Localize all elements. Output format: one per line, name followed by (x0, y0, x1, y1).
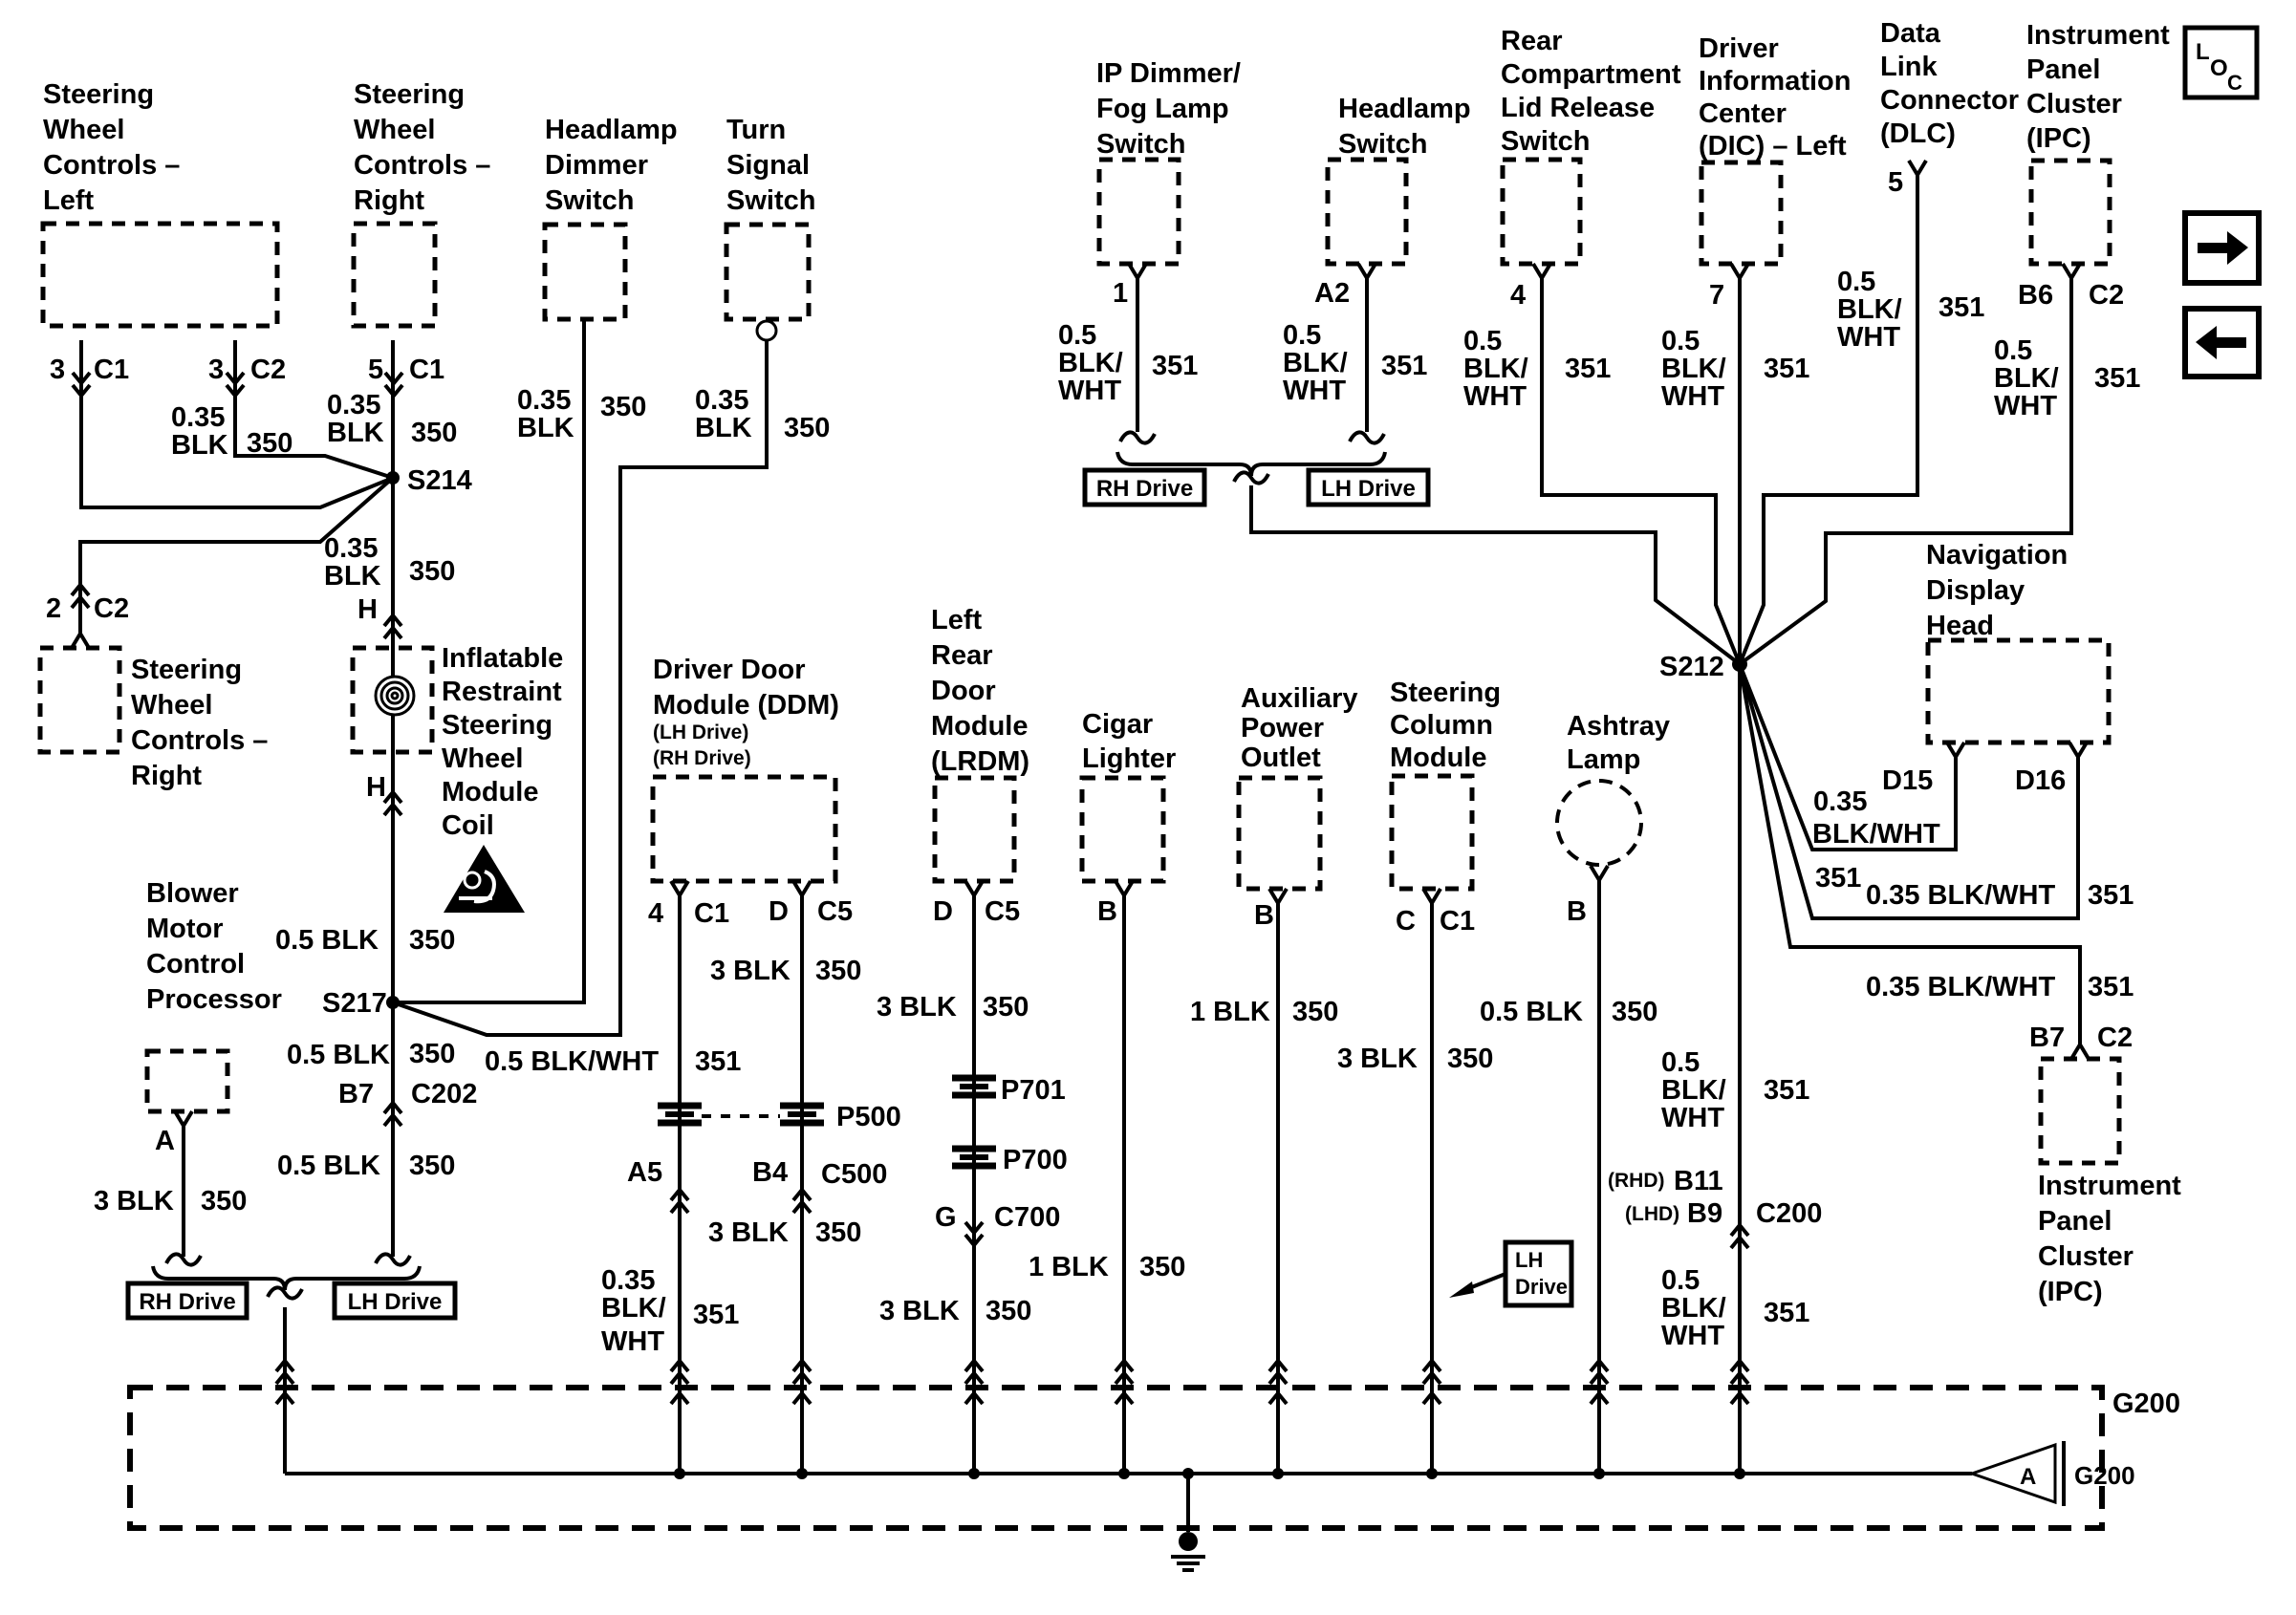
svg-text:Instrument: Instrument (2038, 1171, 2181, 1201)
svg-text:A2: A2 (1314, 278, 1350, 309)
svg-text:B: B (1254, 900, 1274, 931)
svg-text:C1: C1 (694, 898, 729, 929)
svg-text:0.35 BLK/WHT: 0.35 BLK/WHT (1866, 972, 2055, 1002)
svg-text:BLK: BLK (517, 413, 574, 443)
svg-text:S217: S217 (322, 988, 387, 1019)
svg-text:5: 5 (1888, 167, 1903, 198)
svg-text:S212: S212 (1659, 652, 1724, 682)
svg-text:350: 350 (409, 1151, 455, 1181)
svg-text:C2: C2 (2089, 280, 2124, 311)
svg-text:350: 350 (409, 556, 455, 587)
svg-text:0.5: 0.5 (1058, 320, 1096, 351)
svg-text:Coil: Coil (442, 810, 494, 841)
svg-text:Controls –: Controls – (354, 150, 490, 181)
svg-text:0.5 BLK/WHT: 0.5 BLK/WHT (485, 1046, 659, 1077)
svg-text:C: C (1396, 906, 1416, 937)
svg-text:350: 350 (1447, 1044, 1493, 1074)
svg-text:A: A (2020, 1464, 2036, 1490)
svg-text:0.5: 0.5 (1994, 335, 2032, 366)
svg-text:BLK: BLK (324, 561, 381, 592)
svg-text:Information: Information (1699, 66, 1852, 97)
svg-text:Steering: Steering (131, 655, 242, 685)
svg-text:3 BLK: 3 BLK (1337, 1044, 1418, 1074)
svg-text:351: 351 (2094, 363, 2140, 394)
svg-text:Wheel: Wheel (43, 115, 124, 145)
svg-text:WHT: WHT (1463, 381, 1527, 412)
svg-text:0.5 BLK: 0.5 BLK (1480, 997, 1583, 1027)
svg-text:3: 3 (208, 355, 224, 385)
svg-text:C700: C700 (994, 1202, 1060, 1233)
svg-text:3 BLK: 3 BLK (710, 956, 791, 986)
svg-text:(LHD): (LHD) (1625, 1203, 1679, 1225)
svg-text:0.35: 0.35 (517, 385, 571, 416)
svg-text:Compartment: Compartment (1501, 59, 1681, 90)
svg-text:0.5: 0.5 (1283, 320, 1321, 351)
svg-text:0.35: 0.35 (1813, 786, 1867, 817)
svg-text:1 BLK: 1 BLK (1190, 997, 1270, 1027)
svg-text:C2: C2 (250, 355, 286, 385)
svg-text:5: 5 (368, 355, 383, 385)
svg-text:D15: D15 (1882, 765, 1933, 796)
svg-text:351: 351 (1381, 351, 1427, 381)
svg-text:G200: G200 (2112, 1389, 2180, 1419)
svg-text:Steering: Steering (1390, 678, 1501, 708)
svg-text:0.35: 0.35 (601, 1265, 655, 1296)
svg-text:1: 1 (1113, 278, 1128, 309)
svg-text:3 BLK: 3 BLK (879, 1296, 960, 1326)
svg-text:351: 351 (693, 1300, 739, 1330)
svg-text:BLK/: BLK/ (1661, 1075, 1726, 1106)
svg-text:Module: Module (1390, 743, 1487, 773)
svg-text:C5: C5 (817, 896, 853, 927)
svg-text:(RH Drive): (RH Drive) (653, 747, 751, 769)
svg-text:Left: Left (931, 605, 983, 635)
svg-text:WHT: WHT (1661, 1103, 1724, 1133)
svg-text:RH Drive: RH Drive (1096, 476, 1193, 502)
svg-text:Steering: Steering (354, 79, 465, 110)
svg-text:A5: A5 (627, 1157, 662, 1188)
svg-text:350: 350 (815, 956, 861, 986)
svg-text:Panel: Panel (2038, 1206, 2112, 1237)
svg-text:Processor: Processor (146, 984, 282, 1015)
svg-text:Inflatable: Inflatable (442, 643, 563, 674)
svg-text:1 BLK: 1 BLK (1029, 1252, 1109, 1282)
svg-text:BLK/: BLK/ (1661, 1293, 1726, 1324)
svg-text:WHT: WHT (1058, 376, 1121, 406)
svg-text:351: 351 (2088, 972, 2134, 1002)
svg-text:Auxiliary: Auxiliary (1241, 683, 1358, 714)
svg-text:Controls –: Controls – (43, 150, 180, 181)
svg-text:Module (DDM): Module (DDM) (653, 690, 839, 721)
svg-text:P500: P500 (836, 1102, 901, 1132)
svg-text:BLK/: BLK/ (1058, 348, 1123, 378)
svg-text:H: H (366, 772, 386, 803)
svg-text:BLK/: BLK/ (1994, 363, 2059, 394)
svg-text:Door: Door (931, 676, 996, 706)
svg-text:C5: C5 (985, 896, 1020, 927)
svg-text:Lighter: Lighter (1082, 743, 1176, 774)
svg-text:0.5: 0.5 (1661, 1047, 1700, 1078)
svg-text:0.5: 0.5 (1661, 1265, 1700, 1296)
svg-text:Driver Door: Driver Door (653, 655, 806, 685)
svg-text:Cigar: Cigar (1082, 709, 1153, 740)
svg-text:B4: B4 (752, 1157, 788, 1188)
svg-text:H: H (357, 594, 378, 625)
svg-text:BLK/: BLK/ (1661, 354, 1726, 384)
svg-text:Right: Right (131, 761, 202, 791)
svg-text:P701: P701 (1001, 1075, 1066, 1106)
svg-text:0.35: 0.35 (324, 533, 378, 564)
svg-text:3 BLK: 3 BLK (94, 1186, 174, 1217)
svg-text:4: 4 (648, 898, 663, 929)
svg-text:0.5: 0.5 (1837, 267, 1875, 297)
svg-text:Outlet: Outlet (1241, 743, 1321, 773)
svg-text:LH Drive: LH Drive (348, 1289, 443, 1315)
svg-text:BLK/: BLK/ (1283, 348, 1348, 378)
svg-text:Display: Display (1926, 575, 2025, 606)
svg-text:G: G (935, 1202, 957, 1233)
svg-text:Connector: Connector (1880, 85, 2019, 116)
svg-text:351: 351 (1764, 1075, 1809, 1106)
svg-text:351: 351 (2088, 880, 2134, 911)
svg-text:(DLC): (DLC) (1880, 118, 1956, 149)
svg-text:2: 2 (46, 593, 61, 624)
svg-text:(IPC): (IPC) (2038, 1277, 2103, 1307)
svg-text:0.35: 0.35 (171, 402, 225, 433)
svg-text:D: D (933, 896, 953, 927)
svg-text:WHT: WHT (1283, 376, 1346, 406)
svg-text:(DIC) – Left: (DIC) – Left (1699, 131, 1847, 161)
svg-text:C1: C1 (409, 355, 444, 385)
svg-text:C1: C1 (1440, 906, 1475, 937)
svg-text:Fog Lamp: Fog Lamp (1096, 94, 1229, 124)
svg-text:B6: B6 (2018, 280, 2053, 311)
svg-text:Instrument: Instrument (2026, 20, 2170, 51)
svg-text:Switch: Switch (1338, 129, 1427, 160)
svg-text:G200: G200 (2074, 1461, 2135, 1490)
svg-text:Turn: Turn (726, 115, 786, 145)
svg-text:Rear: Rear (931, 640, 993, 671)
svg-text:B9: B9 (1687, 1198, 1722, 1229)
svg-text:BLK/: BLK/ (601, 1293, 666, 1324)
svg-text:351: 351 (695, 1046, 741, 1077)
svg-text:0.5 BLK: 0.5 BLK (287, 1040, 390, 1070)
svg-text:L: L (2196, 39, 2210, 65)
svg-text:(LRDM): (LRDM) (931, 746, 1029, 777)
svg-text:Motor: Motor (146, 914, 224, 944)
svg-text:350: 350 (411, 418, 457, 448)
svg-text:Driver: Driver (1699, 33, 1779, 64)
svg-text:Rear: Rear (1501, 26, 1563, 56)
svg-text:350: 350 (409, 925, 455, 956)
svg-text:Navigation: Navigation (1926, 540, 2068, 571)
svg-text:3: 3 (50, 355, 65, 385)
svg-text:Lamp: Lamp (1567, 744, 1640, 775)
svg-text:B: B (1567, 896, 1587, 927)
svg-text:Center: Center (1699, 98, 1787, 129)
svg-text:Dimmer: Dimmer (545, 150, 648, 181)
svg-text:D16: D16 (2015, 765, 2066, 796)
svg-text:0.35: 0.35 (327, 390, 380, 420)
svg-text:Module: Module (442, 777, 539, 807)
svg-text:C: C (2227, 71, 2242, 95)
svg-text:0.35: 0.35 (695, 385, 748, 416)
svg-text:4: 4 (1510, 280, 1526, 311)
svg-text:Right: Right (354, 185, 424, 216)
svg-text:Wheel: Wheel (442, 743, 523, 774)
svg-text:A: A (155, 1126, 175, 1156)
svg-text:Column: Column (1390, 710, 1493, 741)
svg-text:350: 350 (815, 1217, 861, 1248)
svg-text:Headlamp: Headlamp (1338, 94, 1471, 124)
svg-text:Steering: Steering (442, 710, 552, 741)
svg-text:7: 7 (1709, 280, 1724, 311)
svg-text:Panel: Panel (2026, 54, 2100, 85)
svg-text:Link: Link (1880, 52, 1938, 82)
svg-text:C2: C2 (94, 593, 129, 624)
svg-text:Steering: Steering (43, 79, 154, 110)
svg-text:BLK/: BLK/ (1837, 294, 1902, 325)
svg-text:Wheel: Wheel (131, 690, 212, 721)
svg-text:350: 350 (600, 392, 646, 422)
svg-text:350: 350 (983, 992, 1029, 1023)
svg-text:Cluster: Cluster (2026, 89, 2122, 119)
svg-text:S214: S214 (407, 465, 472, 496)
svg-text:350: 350 (247, 428, 292, 459)
svg-text:C2: C2 (2097, 1023, 2133, 1053)
svg-text:0.35 BLK/WHT: 0.35 BLK/WHT (1866, 880, 2055, 911)
svg-text:Data: Data (1880, 18, 1941, 49)
svg-text:0.5: 0.5 (1463, 326, 1502, 356)
svg-text:351: 351 (1764, 354, 1809, 384)
svg-text:3 BLK: 3 BLK (877, 992, 957, 1023)
svg-text:WHT: WHT (1661, 381, 1724, 412)
svg-text:350: 350 (1292, 997, 1338, 1027)
svg-text:Cluster: Cluster (2038, 1241, 2134, 1272)
svg-text:(LH Drive): (LH Drive) (653, 721, 748, 743)
svg-text:BLK: BLK (327, 418, 384, 448)
svg-text:Control: Control (146, 949, 245, 980)
svg-text:351: 351 (1152, 351, 1198, 381)
svg-text:351: 351 (1565, 354, 1611, 384)
svg-text:D: D (769, 896, 789, 927)
svg-text:WHT: WHT (1994, 391, 2057, 421)
svg-text:350: 350 (986, 1296, 1031, 1326)
svg-text:O: O (2210, 55, 2228, 81)
svg-text:Ashtray: Ashtray (1567, 711, 1670, 742)
svg-text:Signal: Signal (726, 150, 810, 181)
svg-text:Switch: Switch (726, 185, 815, 216)
svg-text:WHT: WHT (1837, 322, 1900, 353)
svg-text:(IPC): (IPC) (2026, 123, 2091, 154)
svg-text:B: B (1097, 896, 1117, 927)
svg-text:P700: P700 (1003, 1145, 1068, 1175)
svg-text:BLK/: BLK/ (1463, 354, 1528, 384)
svg-text:IP Dimmer/: IP Dimmer/ (1096, 58, 1241, 89)
svg-text:Wheel: Wheel (354, 115, 435, 145)
svg-text:B11: B11 (1674, 1166, 1723, 1196)
svg-text:LH: LH (1515, 1248, 1543, 1272)
svg-text:Controls –: Controls – (131, 725, 268, 756)
svg-text:350: 350 (201, 1186, 247, 1217)
svg-text:Module: Module (931, 711, 1029, 742)
svg-text:LH Drive: LH Drive (1321, 476, 1416, 502)
svg-text:350: 350 (784, 413, 830, 443)
svg-text:B7: B7 (338, 1079, 374, 1109)
svg-text:BLK: BLK (695, 413, 752, 443)
svg-text:WHT: WHT (1661, 1321, 1724, 1351)
svg-text:0.5 BLK: 0.5 BLK (277, 1151, 380, 1181)
svg-text:Drive: Drive (1515, 1275, 1568, 1299)
svg-text:B7: B7 (2029, 1023, 2065, 1053)
svg-text:RH Drive: RH Drive (139, 1289, 235, 1315)
svg-text:Switch: Switch (545, 185, 634, 216)
svg-text:351: 351 (1815, 863, 1861, 894)
svg-text:Restraint: Restraint (442, 677, 562, 707)
svg-text:350: 350 (409, 1039, 455, 1069)
svg-text:Power: Power (1241, 713, 1324, 743)
svg-text:350: 350 (1612, 997, 1657, 1027)
svg-text:BLK: BLK (171, 430, 228, 461)
svg-text:(RHD): (RHD) (1608, 1170, 1664, 1192)
svg-text:WHT: WHT (601, 1326, 664, 1357)
svg-text:Blower: Blower (146, 878, 239, 909)
svg-text:Left: Left (43, 185, 95, 216)
svg-text:Headlamp: Headlamp (545, 115, 678, 145)
svg-text:Lid Release: Lid Release (1501, 93, 1655, 123)
svg-text:Switch: Switch (1096, 129, 1185, 160)
svg-text:0.5: 0.5 (1661, 326, 1700, 356)
svg-text:351: 351 (1939, 292, 1984, 323)
svg-text:351: 351 (1764, 1298, 1809, 1328)
svg-text:C1: C1 (94, 355, 129, 385)
svg-text:BLK/WHT: BLK/WHT (1812, 819, 1940, 850)
svg-text:Switch: Switch (1501, 126, 1590, 157)
svg-text:C200: C200 (1756, 1198, 1822, 1229)
svg-text:3 BLK: 3 BLK (708, 1217, 789, 1248)
svg-text:0.5 BLK: 0.5 BLK (275, 925, 379, 956)
svg-text:C202: C202 (411, 1079, 477, 1109)
svg-text:C500: C500 (821, 1159, 887, 1190)
svg-text:350: 350 (1139, 1252, 1185, 1282)
svg-text:Head: Head (1926, 611, 1994, 641)
